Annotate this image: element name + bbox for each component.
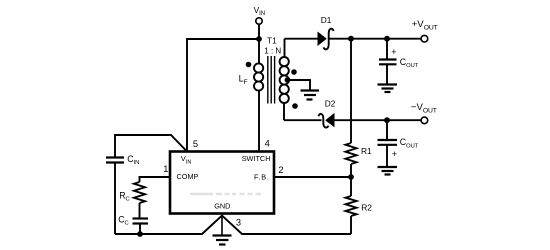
svg-text:+: + bbox=[392, 149, 397, 159]
svg-text:T1: T1 bbox=[267, 35, 277, 45]
svg-text:3: 3 bbox=[236, 218, 241, 228]
svg-text:+: + bbox=[391, 47, 396, 57]
svg-text:1 : N: 1 : N bbox=[264, 47, 281, 56]
svg-text:5: 5 bbox=[193, 139, 198, 149]
svg-text:4: 4 bbox=[265, 138, 270, 148]
svg-text:D2: D2 bbox=[325, 99, 336, 109]
svg-text:D1: D1 bbox=[321, 15, 332, 25]
svg-text:2: 2 bbox=[278, 165, 283, 175]
svg-text:COMP: COMP bbox=[177, 172, 199, 181]
svg-text:1: 1 bbox=[163, 164, 168, 174]
svg-text:GND: GND bbox=[214, 202, 230, 211]
svg-text:F.B.: F.B. bbox=[254, 172, 270, 181]
svg-text:R1: R1 bbox=[361, 146, 372, 156]
svg-text:SWITCH: SWITCH bbox=[242, 154, 271, 163]
svg-text:R2: R2 bbox=[361, 202, 372, 212]
